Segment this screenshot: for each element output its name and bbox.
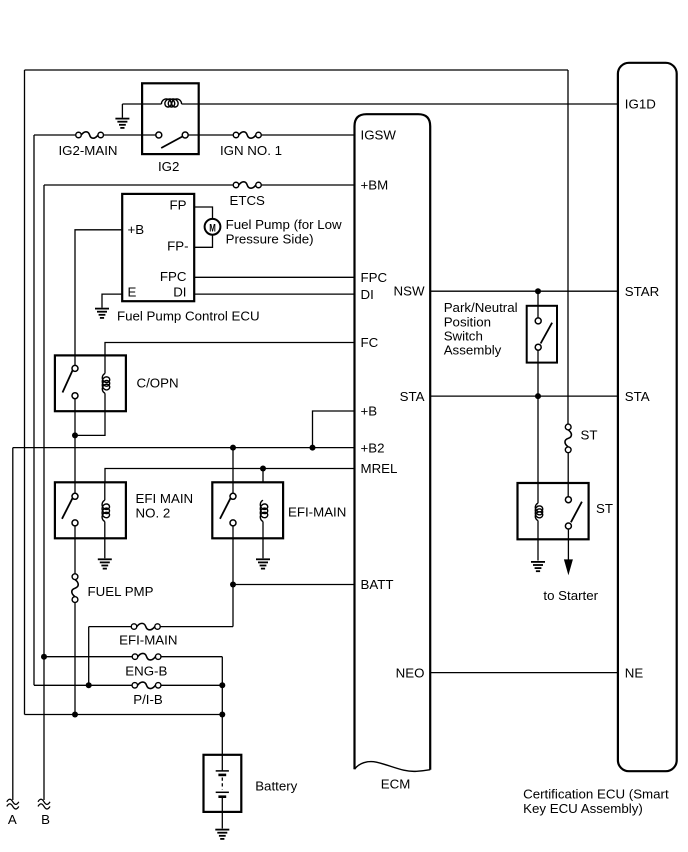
- switch ST contacts: [565, 497, 571, 503]
- pin FPC wire to ECM: [194, 276, 354, 278]
- svg-text:Fuel Pump (for Low: Fuel Pump (for Low: [226, 217, 342, 232]
- wire IG2-MAIN to IG2 switch: [104, 134, 156, 136]
- wire NEO to NE: [430, 672, 618, 674]
- wire EFI-MAIN coil ground drop: [262, 522, 264, 559]
- svg-text:ST: ST: [581, 427, 598, 442]
- junction battery bottom run: [219, 712, 225, 718]
- junction P/I-B EFI-MAIN branch: [86, 682, 92, 688]
- wire ENG-B right lead: [161, 656, 222, 658]
- switch Park/Neutral contacts: [535, 318, 541, 324]
- ground ST coil: [531, 561, 545, 563]
- wire IG2 coil left lead: [122, 103, 161, 105]
- junction FUEL PMP bottom: [72, 712, 78, 718]
- wire ENG-B left lead: [44, 656, 132, 658]
- svg-text:+B: +B: [361, 404, 378, 419]
- inductor IG2 coil: [162, 99, 182, 107]
- svg-text:FC: FC: [361, 335, 379, 350]
- junction ENG-B wire B: [41, 654, 47, 660]
- switch C/OPN: [72, 365, 78, 371]
- wire EFI-MAIN switch top lead: [232, 448, 234, 494]
- inductor ST coil: [535, 503, 542, 520]
- wire IG2 switch to IGN NO. 1: [188, 134, 233, 136]
- wire EFI-MAIN fuse left lead: [89, 626, 132, 628]
- svg-text:Park/Neutral: Park/Neutral: [444, 300, 518, 315]
- fuse ENG-B: [132, 654, 138, 660]
- wire P/N switch top lead: [537, 291, 539, 317]
- svg-text:NO. 2: NO. 2: [136, 505, 171, 520]
- svg-text:FPC: FPC: [160, 269, 187, 284]
- wire ETCS to ECM +BM: [261, 184, 354, 186]
- node B break symbol: [38, 799, 50, 804]
- wire C/OPN coil top to FC: [105, 343, 355, 374]
- svg-text:ETCS: ETCS: [229, 193, 265, 208]
- junction EFI-MAIN coil: [260, 466, 266, 472]
- svg-text:IGN NO. 1: IGN NO. 1: [220, 143, 282, 158]
- wire battery feed: bottom run: [25, 714, 223, 716]
- svg-text:MREL: MREL: [361, 461, 398, 476]
- wire EFI-MAIN coil branch: [262, 469, 264, 483]
- svg-text:+B2: +B2: [361, 440, 385, 455]
- wire MREL run: [105, 469, 355, 483]
- svg-text:IGSW: IGSW: [361, 128, 397, 143]
- fuse ST: [565, 424, 571, 430]
- wire C/OPN switch down: [74, 399, 76, 494]
- relay EFI MAIN NO. 2 box: [55, 482, 126, 538]
- junction C/OPN output: [72, 432, 78, 438]
- svg-text:FP: FP: [170, 197, 187, 212]
- svg-text:EFI MAIN: EFI MAIN: [136, 491, 194, 506]
- wire NO.2 coil top: [104, 482, 106, 500]
- ground battery: [215, 829, 229, 831]
- relay C/OPN box: [55, 355, 126, 411]
- wire NO.2 switch down to fuse: [74, 526, 76, 574]
- svg-text:ST: ST: [596, 501, 613, 516]
- svg-text:Certification ECU (Smart: Certification ECU (Smart: [523, 787, 669, 802]
- svg-text:FUEL PMP: FUEL PMP: [88, 584, 154, 599]
- relay IG2 box: [142, 83, 199, 154]
- svg-text:Key ECU Assembly): Key ECU Assembly): [523, 801, 643, 816]
- svg-text:NEO: NEO: [396, 665, 425, 680]
- svg-text:STA: STA: [625, 389, 650, 404]
- wire P/N switch to STA: [537, 351, 539, 397]
- wire IG2 coil ground drop: [121, 104, 123, 118]
- wire C/OPN coil bottom: [75, 393, 105, 435]
- svg-text:ENG-B: ENG-B: [125, 664, 167, 679]
- wire battery ground drop: [221, 812, 223, 829]
- wire IGN NO. 1 to ECM IGSW: [261, 134, 354, 136]
- svg-text:DI: DI: [361, 287, 374, 302]
- svg-text:to Starter: to Starter: [543, 588, 598, 603]
- wire IG2-MAIN fuse left lead: [34, 134, 76, 136]
- fuse EFI-MAIN: [131, 624, 137, 630]
- svg-text:IG2: IG2: [158, 159, 179, 174]
- svg-text:NSW: NSW: [393, 283, 424, 298]
- svg-text:Pressure Side): Pressure Side): [226, 231, 314, 246]
- ECU Certification box: [618, 63, 677, 771]
- svg-text:+BM: +BM: [361, 178, 389, 193]
- wire B vertical: [43, 185, 45, 800]
- svg-text:E: E: [128, 284, 137, 299]
- svg-text:B: B: [41, 812, 50, 827]
- relay EFI-MAIN box: [212, 482, 283, 538]
- svg-text:STA: STA: [400, 389, 425, 404]
- wire P/I-B run: [34, 684, 132, 686]
- pin E wire: [102, 294, 122, 308]
- wire +BM run: [44, 184, 233, 186]
- svg-text:FP-: FP-: [167, 239, 188, 254]
- wire EFI-MAIN switch down: [232, 526, 234, 627]
- wire ST fuse to relay: [567, 453, 569, 497]
- pin FP wire: [194, 207, 212, 219]
- wire IG2 coil to IG1D: [182, 103, 619, 105]
- svg-text:EFI-MAIN: EFI-MAIN: [119, 632, 177, 647]
- ECM torn bottom edge: [355, 762, 431, 772]
- svg-text:IG2-MAIN: IG2-MAIN: [58, 143, 117, 158]
- wire ST switch to starter: [567, 529, 569, 560]
- svg-text:+B: +B: [128, 222, 145, 237]
- fuse P/I-B: [132, 683, 138, 689]
- wire NSW to STAR: [430, 290, 618, 292]
- pin +B wire: [75, 230, 122, 365]
- svg-text:A: A: [8, 812, 17, 827]
- wire EFI-MAIN fuse left drop: [88, 627, 90, 686]
- switch IG2 contacts: [156, 132, 162, 138]
- wire STA to ST relay coil: [537, 396, 539, 503]
- wire +B branch: [313, 411, 355, 448]
- wire P/I-B feed to IG2-MAIN: [33, 135, 35, 685]
- inductor C/OPN coil: [102, 374, 109, 394]
- wire battery feed: left edge: [24, 70, 26, 715]
- svg-text:Battery: Battery: [255, 778, 297, 793]
- inductor EFI MAIN NO. 2 coil: [102, 500, 109, 521]
- svg-text:Assembly: Assembly: [444, 343, 502, 358]
- inductor EFI-MAIN coil: [260, 500, 267, 521]
- svg-text:Switch: Switch: [444, 329, 483, 344]
- ECU ECM outline: [355, 114, 431, 770]
- svg-text:Position: Position: [444, 314, 491, 329]
- svg-text:C/OPN: C/OPN: [137, 375, 179, 390]
- wire BATT branch: [233, 584, 355, 586]
- fuse FUEL PMP: [72, 574, 78, 580]
- switch EFI MAIN NO. 2: [72, 493, 78, 499]
- svg-text:M: M: [209, 222, 216, 235]
- switch Park/Neutral box: [527, 306, 557, 363]
- junction P/I-B battery: [219, 682, 225, 688]
- fuse IG2-MAIN: [76, 132, 82, 138]
- junction +B branch: [310, 445, 316, 451]
- junction STA: [535, 393, 541, 399]
- wire STA run: [430, 395, 618, 397]
- relay ST box: [518, 483, 589, 539]
- wire EFI-MAIN fuse right lead: [160, 626, 233, 628]
- junction BATT branch: [230, 582, 236, 588]
- pin DI wire to ECM: [194, 293, 354, 295]
- pin FP- wire: [194, 235, 212, 248]
- node A break symbol: [7, 799, 19, 804]
- wire FUEL PMP to bottom run: [74, 603, 76, 715]
- svg-text:STAR: STAR: [625, 284, 659, 299]
- svg-text:NE: NE: [625, 665, 644, 680]
- svg-text:EFI-MAIN: EFI-MAIN: [288, 505, 346, 520]
- wire battery feed: right drop to ST relay: [567, 70, 569, 424]
- svg-text:Fuel Pump Control ECU: Fuel Pump Control ECU: [117, 308, 260, 323]
- svg-text:BATT: BATT: [361, 577, 394, 592]
- wire P/I-B right lead: [161, 684, 222, 686]
- ground E: [95, 308, 109, 310]
- svg-text:P/I-B: P/I-B: [133, 692, 163, 707]
- wire ST coil ground drop: [537, 521, 539, 561]
- svg-text:IG1D: IG1D: [625, 97, 656, 112]
- wire +B2 run: [13, 447, 355, 449]
- fuse IGN NO. 1: [233, 132, 239, 138]
- motor M fuel pump: [205, 219, 221, 235]
- svg-text:FPC: FPC: [361, 270, 388, 285]
- svg-text:DI: DI: [173, 284, 186, 299]
- ground EFI-MAIN coil: [256, 558, 270, 560]
- ECU Fuel Pump Control box: [122, 194, 194, 301]
- junction NSW park/neutral: [535, 288, 541, 294]
- junction EFI-MAIN switch top: [230, 445, 236, 451]
- wire A vertical: [12, 448, 14, 800]
- wire battery feed: top border: [25, 69, 569, 71]
- fuse ETCS: [233, 182, 239, 188]
- wire battery vertical: [221, 657, 223, 755]
- arrow to starter: [564, 559, 573, 575]
- ground EFI MAIN NO. 2 coil: [98, 558, 112, 560]
- switch EFI-MAIN: [230, 493, 236, 499]
- wire NO.2 coil ground drop: [104, 522, 106, 539]
- battery cells: [221, 755, 223, 771]
- battery box: [204, 755, 242, 812]
- svg-text:ECM: ECM: [381, 777, 411, 792]
- ground IG2 coil: [115, 118, 129, 120]
